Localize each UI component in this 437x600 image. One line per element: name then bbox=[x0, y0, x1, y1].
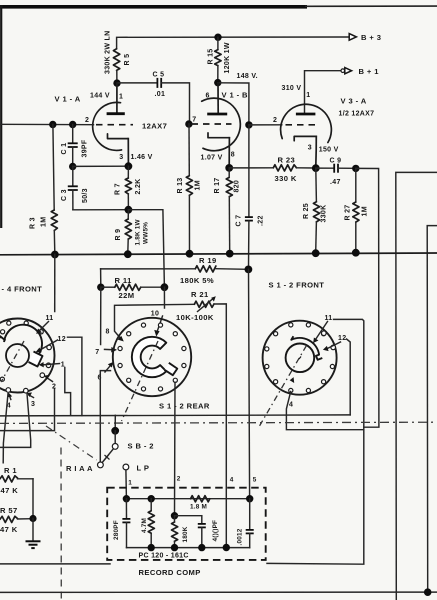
resistor R19 180K 5% bbox=[101, 266, 247, 272]
svg-text:R 21: R 21 bbox=[191, 290, 209, 299]
wire pin 4 F to pin11 run bbox=[286, 392, 363, 430]
wire C1 node to V1-A cathode node bbox=[73, 165, 127, 167]
arrow to contact 10 bbox=[154, 316, 162, 337]
svg-text:8: 8 bbox=[231, 152, 235, 159]
svg-text:2: 2 bbox=[85, 117, 89, 124]
border left bar bbox=[0, 5, 2, 228]
svg-text:10: 10 bbox=[151, 310, 159, 317]
record comp top rail bbox=[126, 498, 249, 500]
arrow pin 3 bbox=[27, 393, 34, 398]
S1-2 FRONT rotor outer arc bbox=[291, 336, 322, 360]
contact circle pin 11 F bbox=[322, 331, 327, 336]
wire V1-A cathode node down to R11 right node bbox=[128, 210, 164, 288]
resistor R5 330K 2W LN bbox=[113, 49, 119, 81]
node junction R3 tap on grid wire bbox=[49, 121, 56, 128]
resistor 1.8M bbox=[191, 496, 210, 502]
junction R15 top on B+3 rail bbox=[214, 34, 221, 41]
junction V3-A grid node bbox=[245, 121, 252, 128]
svg-text:R I A A: R I A A bbox=[66, 464, 93, 473]
SB-2 lead to common contact bbox=[114, 431, 116, 444]
V3-A cathode bar bbox=[294, 136, 316, 140]
wire pin 2 exits left bbox=[0, 389, 55, 431]
S1-2 REAR contact ring circles bbox=[118, 323, 186, 391]
arrow to contact 8 bbox=[115, 332, 124, 342]
svg-text:820: 820 bbox=[234, 180, 241, 193]
svg-text:4()()PF: 4()()PF bbox=[212, 520, 219, 542]
resistor R1 47K bbox=[0, 476, 33, 517]
resistor R7 2.2K bbox=[125, 166, 131, 208]
resistor R25 330K bbox=[313, 168, 319, 252]
svg-text:148 V.: 148 V. bbox=[237, 73, 258, 80]
svg-text:4: 4 bbox=[289, 402, 293, 409]
V1-B plate lead bbox=[217, 83, 219, 114]
svg-text:280PF: 280PF bbox=[113, 520, 120, 540]
svg-text:2: 2 bbox=[177, 476, 181, 483]
arrow to contact 7 bbox=[105, 347, 118, 353]
terminal B+3 arrow bbox=[349, 33, 381, 42]
svg-text:R 25: R 25 bbox=[303, 203, 310, 219]
ground bus rail bbox=[0, 253, 437, 255]
svg-text:.47: .47 bbox=[330, 179, 341, 186]
svg-text:1.46 V: 1.46 V bbox=[131, 154, 153, 161]
LP contact circle bbox=[123, 464, 129, 470]
capacitor C1 39PF bbox=[68, 125, 78, 166]
SB-2 arm to RIAA contact bbox=[103, 449, 114, 462]
junction terminal 2 / 400PF node bbox=[171, 512, 178, 519]
contact circle pin 12 bbox=[47, 345, 52, 350]
resistor R57 47K bbox=[0, 516, 32, 522]
svg-text:S 1 - 2 FRONT: S 1 - 2 FRONT bbox=[269, 280, 325, 289]
svg-text:C 5: C 5 bbox=[153, 72, 165, 79]
wire pin 11 to rail bbox=[54, 255, 56, 312]
resistor R27 1M bbox=[353, 168, 359, 251]
wire V1-A grid input from left edge bbox=[0, 123, 94, 125]
svg-text:V 1 - A: V 1 - A bbox=[55, 95, 81, 104]
tube V1-B envelope bbox=[202, 98, 241, 151]
svg-text:47 K: 47 K bbox=[1, 486, 19, 495]
junction rail R13 bbox=[186, 250, 194, 258]
junction 180K bottom bbox=[171, 544, 178, 551]
svg-text:R 13: R 13 bbox=[177, 178, 184, 194]
svg-text:R 15: R 15 bbox=[207, 49, 214, 65]
junction V1-B grid node bbox=[185, 120, 192, 127]
svg-text:1M: 1M bbox=[362, 206, 369, 216]
V1-B cathode lead bbox=[228, 138, 230, 166]
svg-text:22M: 22M bbox=[119, 291, 135, 300]
svg-text:1: 1 bbox=[306, 92, 310, 99]
svg-text:C 1: C 1 bbox=[61, 143, 68, 155]
wire pin 3 exits left bbox=[0, 394, 31, 448]
chassis dash-dot boundary bbox=[0, 422, 437, 423]
svg-text:R 1: R 1 bbox=[4, 466, 17, 475]
S1-2 REAR rotor hook tab bbox=[165, 363, 178, 375]
svg-text:3: 3 bbox=[308, 144, 312, 151]
terminal B+1 arrow bbox=[341, 67, 379, 76]
resistor R11 22M bbox=[101, 284, 163, 290]
resistor R9 1.8K 1W WW5% bbox=[125, 210, 131, 253]
svg-text:330K 2W LN: 330K 2W LN bbox=[105, 31, 112, 74]
svg-text:V 1 - B: V 1 - B bbox=[222, 91, 249, 100]
V3-A grid dashes bbox=[286, 124, 318, 126]
svg-text:PC 120 - 161C: PC 120 - 161C bbox=[139, 552, 189, 559]
tube V3-A envelope bbox=[281, 104, 332, 142]
svg-text:R 57: R 57 bbox=[0, 506, 18, 515]
svg-text:R 23: R 23 bbox=[278, 155, 296, 164]
capacitor C5 .01 bbox=[157, 78, 161, 88]
wire pin 12 to long bus bbox=[68, 337, 82, 415]
wire left to record comp lower left bbox=[0, 563, 110, 565]
V1-A cathode lead bbox=[127, 139, 129, 164]
svg-text:2.2K: 2.2K bbox=[135, 179, 142, 195]
svg-text:1.07 V: 1.07 V bbox=[201, 154, 223, 161]
capacitor .0012 bbox=[246, 499, 254, 548]
svg-text:7: 7 bbox=[192, 117, 196, 124]
capacitor 280PF bbox=[122, 499, 130, 548]
svg-text:6: 6 bbox=[206, 93, 210, 100]
svg-text:4.7M: 4.7M bbox=[141, 518, 148, 533]
arrow pin 4 bbox=[7, 393, 12, 400]
section dashed vertical line bbox=[60, 448, 62, 600]
junction R27 top node bbox=[352, 165, 359, 172]
svg-text:4: 4 bbox=[230, 477, 234, 484]
S1-2 FRONT axis dash bbox=[258, 346, 307, 429]
resistor 4.7M bbox=[148, 499, 154, 548]
V1-A grid dashes bbox=[96, 124, 133, 126]
wire R21 right end to record comp terminal 4 bbox=[214, 304, 226, 546]
junction terminal 5 node bbox=[246, 495, 253, 502]
junction terminal 4 bottom bbox=[223, 544, 230, 551]
resistor R3 1M bbox=[51, 125, 57, 254]
wire C3 bottom to R7/R9 junction bbox=[73, 209, 127, 211]
svg-text:5: 5 bbox=[253, 477, 257, 484]
wire B+1 from V3-A plate bbox=[305, 71, 345, 113]
wire LP contact to record comp terminal 1 bbox=[125, 470, 128, 498]
svg-text:3: 3 bbox=[119, 154, 123, 161]
svg-text:1.8 M: 1.8 M bbox=[190, 504, 207, 511]
wire B+3 rail from R5 top to arrow bbox=[117, 37, 349, 49]
wire stub to right edge upper bbox=[396, 172, 437, 600]
svg-text:11: 11 bbox=[46, 315, 54, 322]
junction V1-A cathode node bbox=[124, 162, 132, 170]
record comp bottom rail bbox=[127, 547, 250, 549]
junction R7/R9 node bbox=[124, 206, 132, 214]
svg-text:R 7: R 7 bbox=[115, 183, 122, 195]
contact circle pin 4 bbox=[6, 388, 11, 393]
svg-text:7: 7 bbox=[95, 349, 99, 356]
resistor R13 1M bbox=[186, 124, 192, 253]
svg-text:330 K: 330 K bbox=[275, 174, 297, 183]
SB-2 arm cross tick bbox=[104, 455, 109, 461]
junction 4.7M bottom bbox=[148, 544, 155, 551]
svg-text:180K 5%: 180K 5% bbox=[180, 276, 214, 285]
svg-text:1.8K 1W: 1.8K 1W bbox=[135, 218, 142, 245]
svg-text:C 7: C 7 bbox=[235, 215, 242, 227]
wire C5 to V1-B grid bbox=[161, 83, 189, 122]
wire R19 node down to record comp terminal 5 bbox=[249, 269, 250, 497]
dashed leader to RIAA bbox=[46, 426, 97, 460]
svg-text:.0012: .0012 bbox=[236, 528, 243, 545]
junction C1/C3 node bbox=[69, 163, 76, 170]
capacitor C3 50/3 bbox=[68, 167, 78, 210]
resistor R15 120K 1W bbox=[215, 37, 221, 80]
RECORD COMP dashed box bbox=[107, 488, 266, 560]
tube V1-A envelope bbox=[93, 102, 122, 150]
svg-text:R 5: R 5 bbox=[124, 54, 131, 66]
svg-text:50/3: 50/3 bbox=[82, 188, 89, 203]
bottom long wire bbox=[0, 591, 437, 593]
S1-2 FRONT contact ring circles bbox=[265, 323, 335, 393]
switch S1-2 REAR outer circle bbox=[113, 318, 191, 396]
switch S1-2 FRONT outer circle bbox=[263, 321, 337, 395]
junction SB-2 node bbox=[111, 427, 119, 435]
svg-text:144 V: 144 V bbox=[90, 93, 110, 100]
contact circle pin 1 bbox=[46, 363, 51, 368]
capacitor 400PF bbox=[198, 516, 206, 548]
V1-B plate bar bbox=[207, 113, 227, 116]
svg-text:1M: 1M bbox=[41, 217, 48, 227]
arrow pin 11 F bbox=[313, 322, 327, 344]
svg-text:11: 11 bbox=[325, 315, 333, 322]
svg-text:180K: 180K bbox=[182, 526, 189, 542]
node junction C1 tap on grid wire bbox=[69, 121, 76, 128]
arrow to contact 6 bbox=[105, 362, 113, 372]
junction R19/C7/terminal5 node bbox=[245, 266, 253, 274]
wire node down to contact 10 of S1-2 rear bbox=[163, 287, 165, 308]
svg-text:8: 8 bbox=[106, 328, 110, 335]
ground symbol bbox=[26, 541, 41, 548]
S1-2 FRONT rotor inner circle bbox=[286, 344, 315, 373]
junction V3-A cathode node bbox=[312, 164, 320, 172]
V1-A cathode bar bbox=[108, 134, 129, 139]
contact circle pin 2 bbox=[40, 373, 45, 378]
wire contact 6 to RIAA contact bbox=[100, 371, 110, 462]
S1-4 rotor inner circle bbox=[6, 344, 29, 367]
junction R11 left node bbox=[97, 284, 104, 291]
svg-text:39PF: 39PF bbox=[82, 139, 89, 157]
svg-text:WW5%: WW5% bbox=[143, 222, 150, 244]
svg-text:S B - 2: S B - 2 bbox=[128, 442, 154, 451]
junction R1/R57 node bbox=[29, 515, 36, 522]
junction R11 right node bbox=[161, 283, 169, 291]
wire V1-B plate node right and down to V3-A grid bbox=[218, 83, 249, 123]
resistor R17 820 bbox=[226, 168, 232, 253]
junction V1-B cathode node bbox=[225, 164, 233, 172]
arrow pin 12 bbox=[36, 340, 58, 352]
V1-B cathode bar bbox=[208, 133, 229, 138]
svg-text:150 V: 150 V bbox=[319, 146, 339, 153]
svg-text:R 11: R 11 bbox=[115, 276, 133, 285]
svg-text:2: 2 bbox=[273, 117, 277, 124]
arrow pin 1 bbox=[39, 362, 60, 367]
svg-text:12: 12 bbox=[58, 336, 66, 343]
junction terminal 1 node bbox=[123, 495, 130, 502]
wire pin 12 F to long bus bbox=[347, 339, 351, 415]
svg-text:12: 12 bbox=[338, 335, 346, 342]
svg-text:V 3 - A: V 3 - A bbox=[341, 96, 367, 105]
wire V3-A grid node to tube bbox=[249, 124, 282, 126]
svg-text:S 1 - 2 REAR: S 1 - 2 REAR bbox=[159, 401, 210, 410]
svg-text:1: 1 bbox=[119, 93, 123, 100]
S1-2 REAR rotor C shape bbox=[132, 337, 166, 377]
capacitor C7 .22 on V3-A grid dropline bbox=[245, 125, 253, 268]
contact circle pin 3 bbox=[24, 388, 29, 393]
svg-text:3: 3 bbox=[31, 401, 35, 408]
junction rail R3/S1-4 pin11 bbox=[51, 251, 59, 259]
S1-2 FRONT center tick bbox=[299, 357, 301, 360]
junction rail R9 bbox=[124, 250, 132, 258]
arrow pin 2 bbox=[44, 375, 53, 382]
arrow pin 12 F bbox=[323, 342, 341, 351]
wire 400PF top bbox=[175, 515, 202, 517]
capacitor C9 .47 bbox=[316, 164, 355, 173]
svg-text:330K: 330K bbox=[321, 205, 328, 223]
switch S1-4 FRONT outer circle bbox=[0, 319, 55, 393]
wire S1-2 rear contact (term2) down to record comp terminal 2 bbox=[174, 382, 177, 514]
wire stub to right edge lower bbox=[427, 226, 437, 593]
S1-4 rotor small tab upper left bbox=[0, 337, 6, 341]
svg-text:1: 1 bbox=[128, 480, 132, 487]
resistor R23 330K bbox=[273, 165, 296, 171]
ground lead bbox=[32, 519, 34, 542]
contact circle pin 12 F bbox=[331, 345, 336, 350]
S1-4 rotor arc bbox=[4, 325, 42, 358]
svg-text:.01: .01 bbox=[155, 91, 166, 98]
wire pin 11 F to lower right run bbox=[267, 319, 364, 564]
svg-text:R 9: R 9 bbox=[115, 229, 122, 241]
arrow pin 4 F on axis dash bbox=[290, 377, 295, 383]
junction 4.7M top bbox=[148, 495, 155, 502]
svg-text:B + 1: B + 1 bbox=[359, 67, 380, 76]
long bus wire bbox=[0, 415, 350, 416]
svg-text:R 27: R 27 bbox=[344, 205, 351, 221]
svg-text:R 17: R 17 bbox=[214, 178, 221, 194]
V1-A plate bar bbox=[107, 112, 125, 115]
S1-2 REAR axis dash line bbox=[122, 341, 159, 421]
resistor 180K bbox=[172, 516, 178, 548]
svg-text:L P: L P bbox=[137, 463, 150, 472]
rheostat R21 10K-100K wire from contact 8 riser bbox=[115, 304, 195, 330]
svg-text:B + 3: B + 3 bbox=[361, 33, 381, 42]
junction rail R25 bbox=[312, 249, 320, 257]
svg-text:- 4 FRONT: - 4 FRONT bbox=[2, 284, 43, 293]
junction bottom right bbox=[424, 588, 432, 596]
border top bar bbox=[0, 5, 437, 9]
svg-text:47 K: 47 K bbox=[0, 525, 18, 534]
V1-A plate lead bbox=[116, 83, 118, 114]
junction rail R17 bbox=[226, 250, 234, 258]
wire R23 to V3-A cathode node bbox=[297, 167, 315, 169]
svg-text:120K 1W: 120K 1W bbox=[224, 42, 231, 73]
svg-text:C 9: C 9 bbox=[330, 158, 342, 165]
svg-text:.22: .22 bbox=[258, 215, 265, 226]
SB-2 common contact circle bbox=[112, 444, 118, 450]
wire output node to right dropline bbox=[356, 168, 379, 427]
wire R19 left corner down to R11 bbox=[100, 269, 102, 286]
wire pin 1 to long bus bbox=[65, 368, 71, 415]
wire R11 left node down to switch contact 7 bbox=[100, 287, 102, 344]
svg-text:R 19: R 19 bbox=[199, 256, 217, 265]
wire pin 4 exits lower left bbox=[3, 394, 8, 463]
svg-text:RECORD COMP: RECORD COMP bbox=[139, 568, 201, 577]
rheostat R21 zigzag bbox=[194, 301, 214, 307]
S1-4 axis dash bbox=[1, 341, 24, 382]
V1-B grid dashes bbox=[192, 123, 232, 125]
junction 400PF bottom bbox=[198, 544, 205, 551]
junction V1-B plate node bbox=[214, 79, 221, 86]
svg-text:310 V: 310 V bbox=[282, 85, 302, 92]
svg-text:1M: 1M bbox=[195, 180, 202, 190]
svg-text:1/2 12AX7: 1/2 12AX7 bbox=[339, 111, 375, 118]
svg-text:12AX7: 12AX7 bbox=[142, 122, 167, 131]
arrow pin 11 bbox=[36, 322, 48, 334]
junction V1-A plate node bbox=[113, 79, 120, 86]
switch SB-2 stem from long bus bbox=[114, 415, 116, 428]
RIAA contact circle bbox=[98, 462, 104, 468]
R21 wiper arrow bbox=[198, 296, 216, 311]
wire plate node to C5 bbox=[117, 82, 157, 84]
wire V1-B cathode node to R23 bbox=[229, 167, 273, 169]
S1-4 contact ring circles bbox=[0, 321, 43, 381]
svg-text:10K-100K: 10K-100K bbox=[176, 313, 214, 322]
svg-text:R 3: R 3 bbox=[30, 217, 37, 229]
junction rail R27 bbox=[352, 249, 360, 257]
S1-4 rotor tab bbox=[29, 352, 43, 367]
V3-A cathode lead bbox=[315, 136, 318, 166]
V3-A plate bar bbox=[296, 113, 316, 116]
svg-text:C 3: C 3 bbox=[61, 189, 68, 201]
